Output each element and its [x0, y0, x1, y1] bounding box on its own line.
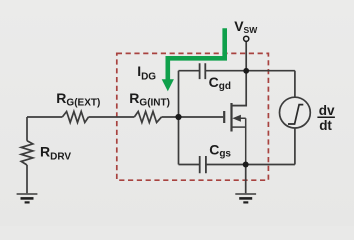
- wire gate rail left segment: [27, 116, 62, 118]
- wire Cgs left lead: [179, 164, 200, 166]
- drain tap: [232, 105, 246, 107]
- wire Cgs right lead to source node C: [206, 164, 245, 166]
- wire dv/dt bottom lead: [294, 128, 296, 164]
- wire R_DRV to ground: [26, 165, 28, 193]
- wire Cgd right lead to VSW node and dv/dt branch: [206, 70, 295, 72]
- node B junction dot: [243, 68, 249, 74]
- transistor Q1 MOSFET: [224, 103, 246, 165]
- capacitor C_gs: [200, 156, 206, 173]
- capacitor C_gd: [200, 63, 206, 79]
- current arrow I_DG (green): [162, 28, 225, 91]
- ground (left, below R_DRV): [17, 194, 38, 202]
- wire source node down to ground: [245, 165, 247, 194]
- body tap with arrow: [240, 118, 246, 164]
- channel bar: [230, 103, 232, 132]
- node A junction dot (gate node): [175, 114, 181, 120]
- node C junction dot (source node): [243, 162, 249, 168]
- wire gate rail middle segment: [89, 116, 135, 118]
- resistor R_DRV: [21, 141, 33, 165]
- svg-text:dt: dt: [319, 118, 332, 133]
- resistor R_G(EXT): [62, 112, 88, 123]
- wire Cgd left lead: [179, 70, 200, 72]
- wire node A vertical (gate node to Cgd/Cgs): [178, 71, 180, 165]
- dashed package boundary box: [117, 53, 269, 180]
- wire gate node to MOSFET gate: [179, 116, 224, 118]
- svg-text:dv: dv: [319, 103, 335, 118]
- label dv/dt: [317, 103, 335, 133]
- wire drain elbow from node B: [232, 71, 247, 106]
- wire source node to dv/dt bottom: [246, 164, 295, 166]
- dv/dt source U1: [280, 97, 311, 128]
- wire VSW terminal down to node B: [245, 41, 247, 70]
- resistor R_G(INT): [134, 112, 161, 123]
- wire dv/dt top lead: [294, 71, 296, 97]
- ground (right, below source node): [235, 194, 256, 202]
- wire gate rail to gate node: [162, 116, 179, 118]
- gate bar: [223, 111, 225, 123]
- terminal V_SW: [244, 36, 249, 41]
- source tap: [232, 126, 246, 128]
- wire left branch down to R_DRV: [26, 117, 28, 141]
